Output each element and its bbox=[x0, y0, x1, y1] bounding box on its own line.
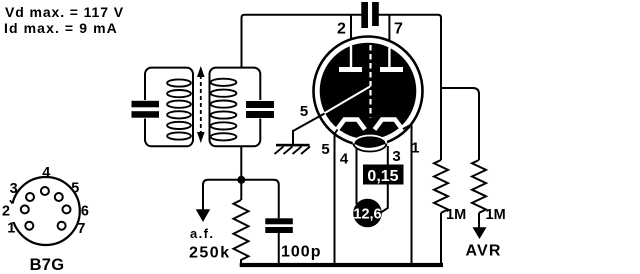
svg-text:7: 7 bbox=[77, 221, 85, 237]
svg-text:3: 3 bbox=[392, 148, 400, 165]
svg-text:1: 1 bbox=[411, 139, 419, 156]
svg-text:2: 2 bbox=[337, 21, 346, 38]
svg-text:AVR: AVR bbox=[465, 243, 501, 260]
svg-text:a.f.: a.f. bbox=[190, 226, 214, 241]
svg-text:5: 5 bbox=[71, 181, 79, 197]
svg-text:B7G: B7G bbox=[30, 256, 65, 274]
svg-text:1: 1 bbox=[7, 221, 15, 237]
svg-text:5: 5 bbox=[321, 141, 329, 158]
svg-text:3: 3 bbox=[10, 181, 18, 197]
svg-text:Vd max. = 117 V: Vd max. = 117 V bbox=[5, 4, 124, 20]
svg-text:6: 6 bbox=[81, 203, 89, 219]
svg-text:1M: 1M bbox=[446, 207, 466, 223]
svg-text:Id max. = 9 mA: Id max. = 9 mA bbox=[4, 20, 118, 36]
svg-text:250k: 250k bbox=[189, 245, 231, 262]
svg-text:4: 4 bbox=[42, 165, 50, 181]
svg-text:2: 2 bbox=[2, 203, 10, 219]
svg-text:100p: 100p bbox=[281, 244, 321, 261]
svg-text:4: 4 bbox=[340, 150, 349, 167]
svg-text:7: 7 bbox=[394, 21, 403, 38]
svg-text:5: 5 bbox=[300, 103, 308, 120]
svg-text:12,6: 12,6 bbox=[353, 207, 381, 223]
svg-text:0,15: 0,15 bbox=[367, 168, 398, 185]
svg-text:1M: 1M bbox=[486, 207, 506, 223]
